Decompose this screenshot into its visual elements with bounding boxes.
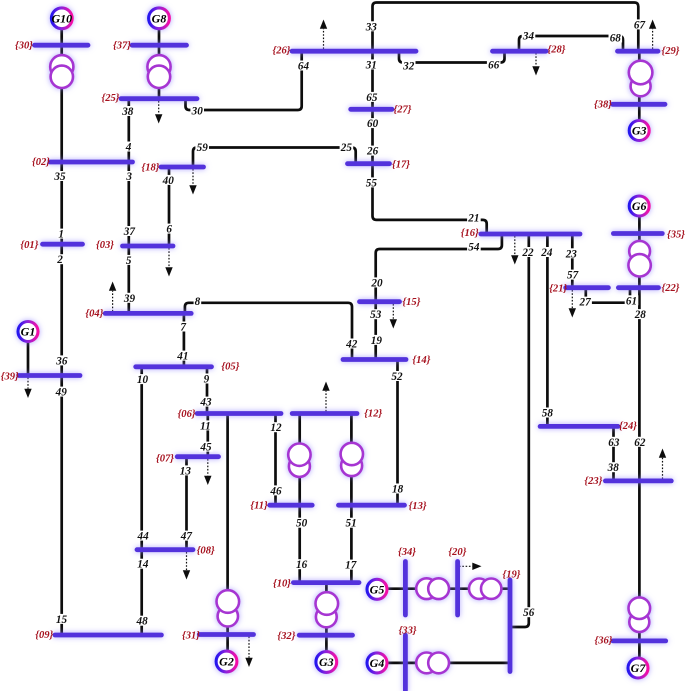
- bus {04}: [105, 311, 191, 316]
- branch label 59: [195, 142, 209, 154]
- svg-text:50: 50: [296, 518, 308, 530]
- transformer G4-{33} pair: [416, 653, 449, 674]
- generator G10: [51, 8, 72, 29]
- branch label 23: [565, 248, 579, 260]
- branch label 8: [194, 296, 202, 308]
- svg-text:{34}: {34}: [398, 547, 416, 558]
- bus {19} (vertical): [508, 580, 513, 672]
- wire 52-18: [396, 360, 399, 506]
- svg-text:{33}: {33}: [399, 625, 417, 636]
- svg-text:10: 10: [137, 374, 149, 386]
- bus {16}: [481, 232, 580, 237]
- branch label 37: [123, 226, 137, 238]
- load arrow at bus {12} (up): [322, 382, 329, 412]
- wire 55-21: [373, 164, 487, 234]
- transformer G3 top (bus {29}-{38}): [629, 61, 653, 97]
- branch label 48: [135, 616, 149, 628]
- branch label 33: [365, 21, 379, 33]
- bus {26}: [292, 49, 416, 54]
- svg-text:59: 59: [197, 142, 209, 154]
- svg-text:39: 39: [123, 293, 136, 305]
- svg-text:62: 62: [634, 437, 646, 449]
- svg-text:{07}: {07}: [156, 454, 174, 465]
- svg-text:38: 38: [607, 462, 620, 474]
- svg-text:68: 68: [610, 33, 622, 45]
- generator G7: [628, 658, 648, 678]
- branch label 19: [370, 335, 384, 347]
- branch label 13: [179, 465, 193, 477]
- generator G2: [216, 651, 237, 672]
- bus {30}: [35, 43, 89, 48]
- branch label 30: [190, 106, 204, 118]
- svg-text:53: 53: [370, 309, 382, 321]
- branch label 5: [125, 255, 133, 267]
- svg-text:{27}: {27}: [394, 104, 412, 115]
- branch label 10: [136, 374, 150, 386]
- wire branches 38-4-3-37-5-39 (col x128.8): [127, 99, 130, 314]
- branch label 44: [136, 531, 150, 543]
- bus {25}: [121, 96, 197, 101]
- bus {07}: [177, 454, 218, 459]
- svg-text:26: 26: [366, 146, 379, 158]
- svg-text:42: 42: [345, 339, 358, 351]
- svg-text:{18}: {18}: [142, 163, 160, 174]
- branch label 14: [136, 559, 150, 571]
- branch label 9: [203, 374, 211, 386]
- svg-text:46: 46: [269, 485, 282, 497]
- svg-text:{21}: {21}: [549, 284, 567, 295]
- wire 9-43: [206, 367, 209, 414]
- bus {28}: [493, 49, 547, 54]
- branch label 49: [54, 387, 68, 399]
- bus {22}: [618, 285, 658, 290]
- svg-text:21: 21: [467, 212, 479, 224]
- branch label 12: [269, 422, 283, 434]
- svg-text:{29}: {29}: [662, 46, 680, 57]
- bus {27}: [351, 107, 392, 112]
- svg-text:7: 7: [180, 322, 186, 334]
- svg-text:{37}: {37}: [113, 41, 131, 52]
- svg-text:31: 31: [365, 59, 377, 71]
- svg-text:56: 56: [523, 607, 535, 619]
- branch label 41: [176, 351, 190, 363]
- svg-text:{24}: {24}: [619, 421, 637, 432]
- branch label 42: [345, 339, 359, 351]
- svg-text:G7: G7: [631, 661, 647, 675]
- branch label 63: [607, 437, 621, 449]
- svg-text:{35}: {35}: [667, 229, 685, 240]
- svg-text:16: 16: [296, 559, 308, 571]
- wire G5 line: [388, 587, 511, 590]
- svg-text:32: 32: [402, 61, 415, 73]
- wire 53-19: [374, 302, 377, 360]
- svg-text:G10: G10: [51, 12, 72, 26]
- branch label 6: [165, 224, 173, 236]
- svg-text:49: 49: [55, 387, 68, 399]
- branch label 21: [467, 212, 481, 224]
- branch label 66: [487, 59, 501, 71]
- bus {34} (vertical): [403, 562, 408, 616]
- wire 23-57: [571, 234, 574, 288]
- svg-text:3: 3: [125, 171, 132, 183]
- wire G1 stem: [27, 341, 30, 376]
- wire bus12-bus11 transformer branch / 50-16: [298, 414, 301, 583]
- load arrow at bus {21}: [569, 290, 576, 318]
- svg-text:8: 8: [195, 296, 201, 308]
- svg-text:28: 28: [634, 309, 647, 321]
- generator G8: [149, 8, 170, 29]
- bus {21}: [566, 285, 609, 290]
- wire 27-61: [586, 288, 630, 303]
- svg-text:{13}: {13}: [409, 501, 427, 512]
- wire 11-45: [206, 414, 209, 457]
- svg-text:{06}: {06}: [178, 409, 196, 420]
- bus {35}: [613, 231, 662, 236]
- svg-text:36: 36: [55, 355, 68, 367]
- transformer G6 (bus {35}-{22}): [628, 241, 650, 277]
- bus {14}: [343, 357, 406, 362]
- branch label 40: [161, 175, 175, 187]
- load arrow at bus {07}: [204, 459, 211, 485]
- branch label 53: [369, 309, 383, 321]
- bus {12}: [292, 411, 357, 416]
- svg-text:{26}: {26}: [273, 46, 291, 57]
- transformer G5-{34} pair: [416, 578, 449, 599]
- wire 12-46: [274, 414, 277, 506]
- bus {32}: [299, 633, 352, 638]
- bus {38}: [613, 102, 666, 107]
- generator G3: [629, 121, 649, 141]
- svg-text:30: 30: [191, 106, 204, 118]
- svg-text:2: 2: [56, 254, 63, 266]
- generator G4: [367, 653, 387, 673]
- load arrow at bus {31}: [245, 637, 252, 668]
- bus {10}: [293, 580, 359, 585]
- svg-text:4: 4: [125, 142, 132, 154]
- bus {08}: [137, 547, 193, 552]
- branch label 65: [365, 92, 379, 104]
- wire 54-20: [376, 234, 502, 302]
- transformer bus {12}-{11}: [288, 444, 310, 477]
- svg-text:{11}: {11}: [250, 501, 268, 512]
- svg-text:61: 61: [626, 295, 637, 307]
- svg-text:12: 12: [270, 422, 282, 434]
- bus {02}: [50, 160, 133, 165]
- branch label 43: [199, 397, 213, 409]
- bus {18}: [161, 165, 204, 170]
- bus {31}: [199, 632, 253, 637]
- svg-text:58: 58: [542, 408, 554, 420]
- bus {03}: [123, 244, 174, 249]
- branch label 45: [199, 442, 213, 454]
- bus {36}: [613, 639, 666, 644]
- svg-text:14: 14: [137, 559, 149, 571]
- svg-text:{17}: {17}: [392, 159, 410, 170]
- bus {06}: [197, 411, 281, 416]
- branch label 18: [391, 484, 405, 496]
- branch label 1: [57, 229, 65, 241]
- load arrow at bus {15}: [390, 304, 397, 329]
- branch label 47: [180, 531, 194, 543]
- svg-text:20: 20: [370, 277, 383, 289]
- bus {20} (vertical): [455, 562, 460, 616]
- svg-text:43: 43: [199, 397, 212, 409]
- svg-text:G5: G5: [370, 583, 385, 597]
- load arrow at bus {39}: [24, 378, 31, 399]
- branch label 39: [123, 293, 137, 305]
- load arrow at bus {08}: [183, 552, 190, 580]
- wire G8 stem: [158, 29, 161, 99]
- svg-text:5: 5: [126, 255, 132, 267]
- wire 31-65-60-26 (col x372.5): [371, 51, 374, 164]
- svg-text:G2: G2: [219, 655, 234, 669]
- load arrow at bus {20} (right): [459, 563, 482, 570]
- svg-text:63: 63: [608, 437, 620, 449]
- svg-text:18: 18: [392, 484, 404, 496]
- svg-text:{01}: {01}: [20, 240, 38, 251]
- svg-text:40: 40: [162, 175, 175, 187]
- branch label 11: [199, 420, 213, 432]
- svg-text:55: 55: [366, 177, 378, 189]
- svg-text:48: 48: [136, 616, 149, 628]
- wire 7-41: [183, 313, 186, 366]
- svg-text:{25}: {25}: [102, 93, 120, 104]
- svg-text:{10}: {10}: [273, 578, 291, 589]
- branch label 60: [366, 118, 380, 130]
- svg-text:11: 11: [200, 420, 211, 432]
- load arrow at bus {26} (up): [320, 20, 327, 50]
- bus {01}: [43, 242, 83, 247]
- branch label 50: [295, 518, 309, 530]
- branch label 54: [467, 242, 481, 254]
- bus {29}: [618, 49, 659, 54]
- transformer G2 (bus {06}-{31}): [217, 590, 240, 626]
- wire bus10-bus32 transformer branch / G3 stem: [325, 583, 328, 652]
- bus {15}: [360, 299, 400, 304]
- svg-text:{14}: {14}: [412, 355, 430, 366]
- wire 63-38: [612, 426, 615, 481]
- bus {09}: [55, 633, 161, 638]
- svg-text:{03}: {03}: [96, 240, 114, 251]
- svg-text:{04}: {04}: [85, 309, 103, 320]
- branch label 20: [370, 277, 384, 289]
- wire bus12-bus13 transformer branch / 51-17: [350, 414, 353, 583]
- svg-text:19: 19: [371, 335, 383, 347]
- svg-text:25: 25: [340, 142, 353, 154]
- svg-text:{19}: {19}: [503, 570, 521, 581]
- branch label 31: [365, 59, 379, 71]
- branch label 57: [566, 270, 580, 282]
- svg-text:{02}: {02}: [32, 157, 50, 168]
- branch label 16: [295, 559, 309, 571]
- svg-text:60: 60: [367, 118, 379, 130]
- svg-text:47: 47: [180, 531, 193, 543]
- wire 10-44-14-48 (col x141.7): [140, 367, 143, 635]
- svg-text:33: 33: [365, 21, 378, 33]
- branch label 25: [340, 142, 354, 154]
- svg-text:1: 1: [58, 229, 64, 241]
- branch label 3: [125, 171, 133, 183]
- generator G3: [316, 652, 337, 673]
- transformer G10 (bus {30}-{02}): [50, 55, 73, 88]
- branch label 17: [344, 560, 358, 572]
- wire 33-67: [373, 3, 639, 52]
- load arrow at bus {03}: [165, 248, 172, 277]
- branch label 27: [578, 297, 592, 309]
- wire 22-56: [511, 234, 529, 627]
- branch label 26: [366, 146, 380, 158]
- svg-text:{15}: {15}: [402, 297, 420, 308]
- load arrow at bus {25}: [155, 101, 162, 124]
- branch label 4: [125, 142, 133, 154]
- branch label 35: [53, 171, 67, 183]
- branch label 24: [540, 247, 554, 259]
- svg-text:34: 34: [522, 31, 535, 43]
- svg-text:57: 57: [567, 270, 579, 282]
- branch label 34: [522, 31, 536, 43]
- wire 59-25: [193, 148, 356, 168]
- svg-text:{16}: {16}: [461, 228, 479, 239]
- svg-text:{22}: {22}: [662, 283, 680, 294]
- wire 40-6: [168, 167, 171, 246]
- wire 24-58: [546, 234, 549, 426]
- svg-text:G4: G4: [370, 656, 385, 670]
- branch label 46: [269, 485, 283, 497]
- branch label 28: [634, 309, 648, 321]
- branch label 52: [390, 371, 404, 383]
- svg-text:44: 44: [137, 531, 150, 543]
- wire G6 stem: [638, 217, 641, 288]
- branch label 38: [606, 462, 620, 474]
- transformer bus {10}-{32}: [316, 592, 339, 627]
- svg-text:54: 54: [468, 242, 480, 254]
- svg-text:24: 24: [540, 247, 553, 259]
- svg-text:35: 35: [53, 171, 66, 183]
- svg-text:G8: G8: [152, 12, 167, 26]
- transformer {20}-{19} pair: [469, 579, 501, 599]
- svg-text:{31}: {31}: [182, 631, 200, 642]
- svg-text:G3: G3: [632, 124, 647, 138]
- svg-text:{08}: {08}: [197, 545, 215, 556]
- wire G3 top stem: [638, 51, 641, 121]
- branch label 67: [633, 19, 647, 31]
- branch label 55: [365, 177, 379, 189]
- svg-text:{38}: {38}: [594, 99, 612, 110]
- svg-text:G1: G1: [21, 325, 36, 339]
- svg-text:27: 27: [579, 297, 592, 309]
- load arrow at bus {16}: [511, 236, 518, 265]
- wire 28-62 / G7 stem: [638, 288, 641, 658]
- svg-text:9: 9: [204, 374, 210, 386]
- svg-text:{23}: {23}: [584, 476, 602, 487]
- bus {33} (vertical): [403, 635, 408, 690]
- svg-text:6: 6: [166, 224, 172, 236]
- bus {11}: [270, 503, 313, 508]
- branch label 22: [521, 247, 535, 259]
- bus {23}: [605, 478, 671, 483]
- load arrow at bus {29} (up): [649, 20, 656, 50]
- svg-text:{36}: {36}: [595, 636, 613, 647]
- branch label 51: [344, 518, 358, 530]
- generator G5: [367, 579, 387, 599]
- svg-text:51: 51: [346, 518, 357, 530]
- svg-text:52: 52: [391, 371, 403, 383]
- branch label 68: [609, 33, 623, 45]
- bus {24}: [540, 424, 618, 429]
- generator G6: [629, 196, 649, 216]
- svg-text:65: 65: [366, 92, 378, 104]
- svg-text:{05}: {05}: [221, 361, 239, 372]
- branch label 32: [402, 61, 416, 73]
- load arrow at bus {28}: [532, 53, 539, 76]
- wire G4 line: [388, 662, 511, 665]
- branch label 58: [541, 408, 555, 420]
- bus {39}: [19, 373, 80, 378]
- wire 32-66: [399, 51, 505, 62]
- branch label 36: [55, 355, 69, 367]
- svg-text:22: 22: [521, 247, 534, 259]
- branch label 2: [56, 254, 64, 266]
- branch label 56: [522, 607, 536, 619]
- branch label 62: [633, 437, 647, 449]
- svg-text:G6: G6: [632, 199, 647, 213]
- branch label 7: [179, 322, 187, 334]
- svg-text:{32}: {32}: [277, 631, 295, 642]
- svg-text:{30}: {30}: [15, 41, 33, 52]
- bus {17}: [348, 161, 390, 166]
- wire 8-42: [185, 303, 352, 360]
- svg-text:{20}: {20}: [448, 547, 466, 558]
- transformer G7 (bus {23}-{36}): [629, 597, 651, 632]
- svg-text:{12}: {12}: [364, 409, 382, 420]
- bus {13}: [339, 503, 405, 508]
- bus {05}: [136, 364, 212, 369]
- svg-text:38: 38: [121, 106, 134, 118]
- bus {37}: [132, 43, 187, 48]
- branch label 15: [55, 614, 69, 626]
- svg-text:15: 15: [56, 614, 68, 626]
- load arrow at bus {04} (up): [109, 282, 116, 312]
- branch label 61: [625, 295, 639, 307]
- wire 34-68: [519, 36, 623, 51]
- svg-text:41: 41: [176, 351, 188, 363]
- svg-text:{09}: {09}: [35, 630, 53, 641]
- wire 30-64: [186, 51, 302, 110]
- wire G10 stem / branch 35-1-2-36-49-15 (col x61.7): [60, 29, 63, 635]
- load arrow at bus {23} (up): [659, 449, 666, 480]
- svg-text:66: 66: [488, 59, 500, 71]
- load arrow at bus {18}: [189, 169, 196, 195]
- svg-text:23: 23: [565, 248, 578, 260]
- transformer G8 (bus {37}-{25}): [147, 55, 170, 88]
- generator G1: [18, 322, 38, 342]
- svg-text:17: 17: [345, 560, 357, 572]
- svg-text:67: 67: [634, 19, 646, 31]
- svg-text:37: 37: [123, 226, 136, 238]
- branch label 38: [121, 106, 135, 118]
- svg-text:G3: G3: [319, 655, 334, 669]
- wire bus06 to G2 transformer: [226, 414, 229, 652]
- svg-text:64: 64: [298, 61, 310, 73]
- svg-text:{28}: {28}: [548, 45, 566, 56]
- svg-text:45: 45: [199, 442, 212, 454]
- transformer bus {12}-{13}: [341, 443, 363, 476]
- svg-text:{39}: {39}: [1, 371, 19, 382]
- svg-text:13: 13: [180, 465, 192, 477]
- wire 13-47: [185, 457, 188, 550]
- branch label 64: [297, 61, 311, 73]
